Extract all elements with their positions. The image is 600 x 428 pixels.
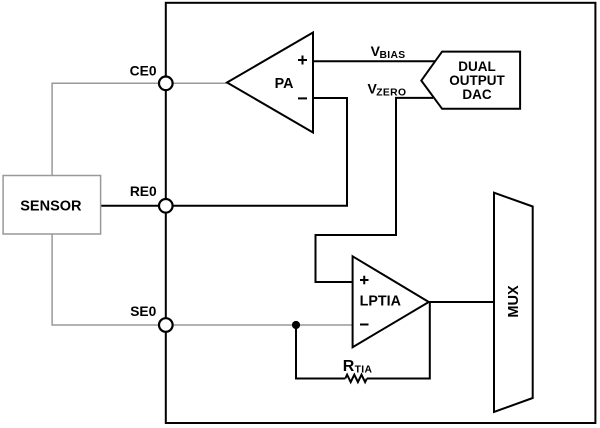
svg-text:ZERO: ZERO <box>376 87 406 98</box>
svg-text:OUTPUT: OUTPUT <box>449 73 505 88</box>
svg-text:TIA: TIA <box>355 365 373 376</box>
svg-text:DAC: DAC <box>462 87 491 102</box>
svg-text:BIAS: BIAS <box>380 50 406 61</box>
svg-text:SE0: SE0 <box>130 304 156 319</box>
svg-text:PA: PA <box>275 76 294 92</box>
svg-text:CE0: CE0 <box>130 63 157 78</box>
svg-text:LPTIA: LPTIA <box>360 293 401 309</box>
svg-text:MUX: MUX <box>506 285 522 318</box>
svg-text:R: R <box>343 358 355 375</box>
svg-text:RE0: RE0 <box>130 184 157 199</box>
svg-text:DUAL: DUAL <box>458 59 496 74</box>
svg-text:SENSOR: SENSOR <box>20 198 82 214</box>
